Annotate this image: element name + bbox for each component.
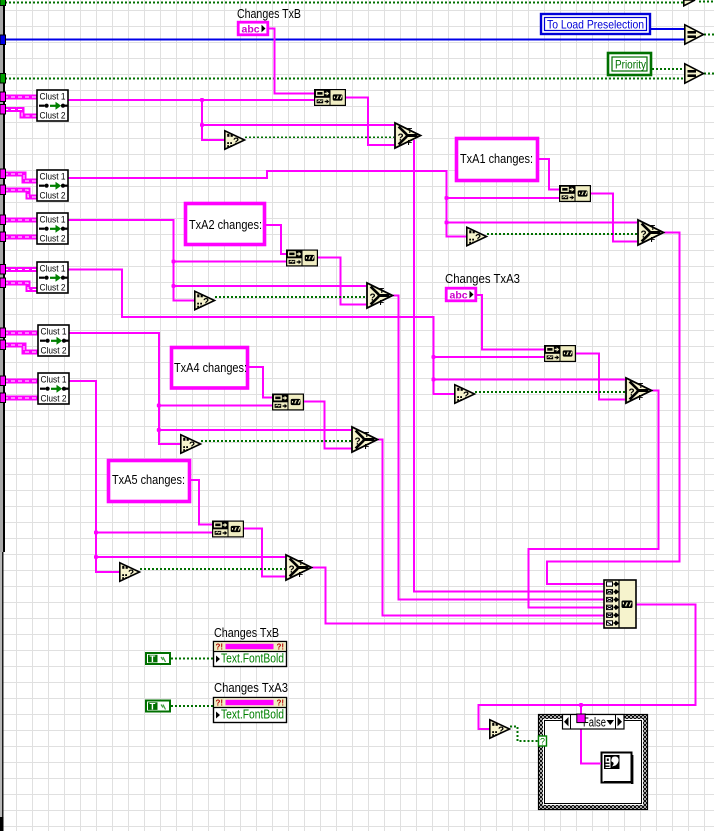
equal node U2 <box>685 64 704 83</box>
wire: boolean rail to equal node U2 <box>5 78 684 80</box>
concat CC4 <box>544 345 576 362</box>
concat CC5 <box>272 394 304 411</box>
svg-text:TxA5 changes:: TxA5 changes: <box>112 472 185 487</box>
tunnel: cluster pair 1 <box>0 92 6 114</box>
wire: Priority to equal node U2 <box>652 68 684 70</box>
tunnels on left border <box>0 0 6 403</box>
cluster compare C1 <box>37 90 68 122</box>
wire: cluster compare C4 to TxA2 group <box>68 220 366 301</box>
select S4 <box>626 378 652 403</box>
subVI dialog icon <box>602 753 634 785</box>
wire: TxA2 box to concat CC2 <box>266 225 286 254</box>
label Changes TxB bottom <box>214 625 279 640</box>
tunnel: cluster pair 4 <box>0 265 6 288</box>
cluster wires into C1 <box>4 97 37 116</box>
wire: big concat CC7 output to case structure and Q7 <box>479 605 696 764</box>
tunnel: cluster pair 3 <box>0 215 6 242</box>
svg-text:TxA2 changes:: TxA2 changes: <box>189 217 262 232</box>
wire: TF1 to property node P1 <box>171 658 213 660</box>
wire: select S2 output down to big concat row3 <box>393 296 604 600</box>
svg-text:To Load Preselection: To Load Preselection <box>547 18 644 32</box>
cluster compare C5 <box>37 262 68 294</box>
select S5 <box>352 427 378 452</box>
wire: concat CC2 to select S2 F input <box>317 258 366 305</box>
select S6 <box>286 555 312 580</box>
svg-text:Priority: Priority <box>615 58 646 72</box>
equal node U1 <box>685 25 704 44</box>
empty-string Q1 <box>225 131 245 149</box>
svg-text:Changes TxB: Changes TxB <box>237 6 301 21</box>
svg-text:False: False <box>583 716 606 730</box>
junction on C5 output <box>432 355 436 382</box>
string box TxA1 changes <box>457 139 538 181</box>
wire: select S1 output down to big concat row2 <box>414 140 604 592</box>
wire: Q3 to S3 selector <box>487 233 637 235</box>
wire: Q1 to S1 selector <box>245 136 394 138</box>
junction on big concat output <box>579 703 583 707</box>
wires layer <box>5 2 714 79</box>
equal node top-edge (cut) <box>684 0 695 6</box>
junction on C6 output <box>157 404 161 433</box>
wire: abc TxA3 constant to concat CC4 <box>476 295 544 350</box>
wire: select S6 output to big concat row6 <box>312 568 604 624</box>
wire: boolean top rail <box>5 2 684 4</box>
case boolean selector terminal <box>539 736 547 747</box>
junction on C1 output <box>200 98 204 127</box>
concat CC6 <box>212 521 244 538</box>
wire: cluster compare C2 to TxA1 group <box>68 171 637 237</box>
tunnel: cluster pair 6 <box>0 376 6 403</box>
cluster wires into C5 <box>4 270 37 290</box>
empty-string Q4 <box>455 385 475 403</box>
wire: select S3 output down-around to big concat row1 <box>547 233 680 585</box>
junction on C2 output <box>445 196 449 225</box>
cluster compare C2 <box>37 170 68 202</box>
case selector label <box>563 715 625 730</box>
abc constant TxA3 <box>446 288 476 301</box>
svg-text:?: ? <box>540 737 545 747</box>
label Changes TxB top <box>237 6 301 21</box>
wire: Q4 to S4 selector <box>475 391 625 393</box>
empty-string Q3 <box>467 227 487 245</box>
wire: TxA4 box to concat CC5 <box>249 367 272 398</box>
cluster wires into C2 <box>4 174 37 197</box>
wire: concat CC4 to select S4 F input <box>575 354 625 400</box>
wire: TF2 to property node P2 <box>171 705 213 707</box>
wire: concat CC3 to select S3 F input <box>590 194 637 242</box>
wire: I32 rail to equal node U1 <box>5 39 684 41</box>
wire: boolean out of top-edge equal node <box>699 1 714 3</box>
wire: abc TxB constant to concat CC1 <box>269 29 314 94</box>
cluster wires into C7 <box>4 381 38 398</box>
case selector string tunnel <box>577 714 585 723</box>
empty-string Q2 <box>195 291 215 309</box>
abc constant TxB <box>238 22 268 35</box>
boolean constant TF1 <box>146 653 170 665</box>
cluster wires into C4 <box>4 220 37 237</box>
wire: equal node U2 output <box>704 73 714 75</box>
wire: cluster compare C5 to TxA3 group <box>68 270 625 395</box>
label Changes TxA3 bottom <box>214 680 288 695</box>
wire: TxA1 box to concat CC3 <box>539 159 559 190</box>
wire: select S4 output down-around to big concat row4 <box>529 391 659 608</box>
select S3 <box>638 220 664 245</box>
empty-string Q5 <box>181 435 201 453</box>
string wires <box>68 29 696 764</box>
svg-text:Changes TxA3: Changes TxA3 <box>214 680 288 695</box>
select S2 <box>367 283 393 308</box>
cluster compare C6 <box>38 325 69 357</box>
wire: TxA5 box to concat CC6 <box>191 480 212 525</box>
wire: Q6 to S6 selector <box>140 568 285 570</box>
wire: cluster compare C1 to concat CC1 and branches <box>68 100 394 140</box>
wire: Q2 to S2 selector <box>215 296 366 298</box>
empty-string Q6 <box>120 563 140 581</box>
property node P2 <box>214 698 287 723</box>
wire: Q7 to case selector terminal <box>510 727 538 742</box>
string box TxA5 changes <box>109 461 190 502</box>
wire: equal node U1 output <box>704 34 714 36</box>
enum constant To Load Preselection <box>541 14 650 34</box>
string box TxA4 changes <box>172 348 248 389</box>
tunnel: I32 <box>0 35 6 45</box>
junction on C4 output <box>172 260 176 289</box>
select S1 <box>395 123 421 148</box>
case structure <box>539 715 648 810</box>
wire: cluster compare C6 to TxA4 group <box>68 333 351 444</box>
wire: cluster compare C7 to TxA5 group <box>68 381 285 572</box>
svg-text:TxA4 changes:: TxA4 changes: <box>174 360 247 375</box>
cluster wires into C6 <box>4 333 38 352</box>
concat CC1 <box>314 89 346 106</box>
concat CC2 <box>286 250 318 267</box>
string box TxA2 changes <box>186 204 265 245</box>
svg-text:Changes TxB: Changes TxB <box>214 625 279 640</box>
wire: concat CC6 to select S6 F input <box>243 529 285 577</box>
boolean constant TF2 <box>146 701 170 713</box>
wire: concat CC1 to select S1 F input <box>346 98 394 146</box>
case selector string tunnel (top copy) <box>577 714 585 723</box>
concat CC3 <box>559 185 591 202</box>
outer structure left border bar <box>0 0 5 831</box>
boolean wires (green dotted) <box>140 137 637 741</box>
enum constant Priority <box>608 53 651 75</box>
label Changes TxA3 <box>445 271 520 286</box>
empty-string Q7 <box>490 720 510 738</box>
wire: concat CC5 to select S5 F input <box>303 402 351 449</box>
svg-text:Changes TxA3: Changes TxA3 <box>445 271 520 286</box>
tunnel: boolean top <box>0 0 6 6</box>
big concat CC7 <box>604 580 636 628</box>
wire: select S5 output down to big concat row5 <box>378 440 604 616</box>
tunnel: cluster pair 5 <box>0 328 6 350</box>
cluster input wires (thick magenta with white dashes) <box>4 97 38 398</box>
wire: To Load Preselection to equal node U1 <box>651 28 684 30</box>
cluster compare C7 <box>38 373 69 405</box>
wire: Q5 to S5 selector <box>201 440 351 442</box>
property node P1 <box>214 642 287 667</box>
tunnel: boolean second <box>0 74 6 84</box>
svg-text:TxA1 changes:: TxA1 changes: <box>460 151 533 166</box>
tunnel: cluster pair 2 <box>0 169 6 195</box>
cluster compare C4 <box>37 213 68 245</box>
junction on C7 output <box>94 531 98 560</box>
